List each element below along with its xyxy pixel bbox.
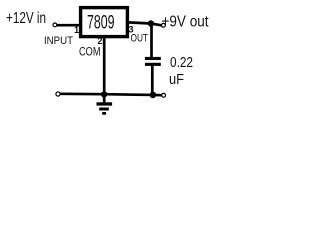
wire junction down to capacitor C1: [150, 24, 153, 58]
wire IC pin 2 down to ground rail: [103, 38, 106, 95]
output terminal circle: [162, 23, 166, 27]
svg-text:+9V out: +9V out: [162, 13, 209, 30]
ground-rail left terminal circle: [56, 92, 60, 96]
svg-text:7809: 7809: [87, 12, 115, 34]
svg-text:1: 1: [74, 25, 79, 35]
ground symbol stem: [103, 95, 106, 103]
ground symbol bar 2: [99, 108, 109, 111]
capacitor C1 top plate: [145, 57, 161, 60]
svg-text:uF: uF: [169, 72, 184, 88]
ground symbol bar 3: [102, 112, 106, 115]
svg-text:OUT: OUT: [131, 32, 149, 44]
ground-rail right terminal circle: [162, 93, 166, 97]
wire IC pin 3 to output terminal: [128, 22, 162, 25]
junction node at output: [148, 20, 154, 26]
capacitor C1 bottom plate: [145, 63, 161, 66]
ground rail wire: [60, 94, 162, 95]
wire capacitor to ground rail: [151, 66, 154, 96]
svg-text:INPUT: INPUT: [44, 35, 73, 47]
svg-text:+12V in: +12V in: [6, 10, 46, 27]
voltage regulator IC U1 box: [81, 8, 128, 37]
svg-text:0.22: 0.22: [170, 55, 193, 71]
input terminal circle: [53, 23, 57, 27]
svg-text:COM: COM: [79, 44, 101, 58]
junction node at ground rail: [150, 92, 157, 99]
wire input terminal to IC pin 1: [57, 24, 80, 27]
junction node at pin-2 ground connection: [101, 91, 107, 97]
ground symbol bar 1: [97, 102, 113, 105]
